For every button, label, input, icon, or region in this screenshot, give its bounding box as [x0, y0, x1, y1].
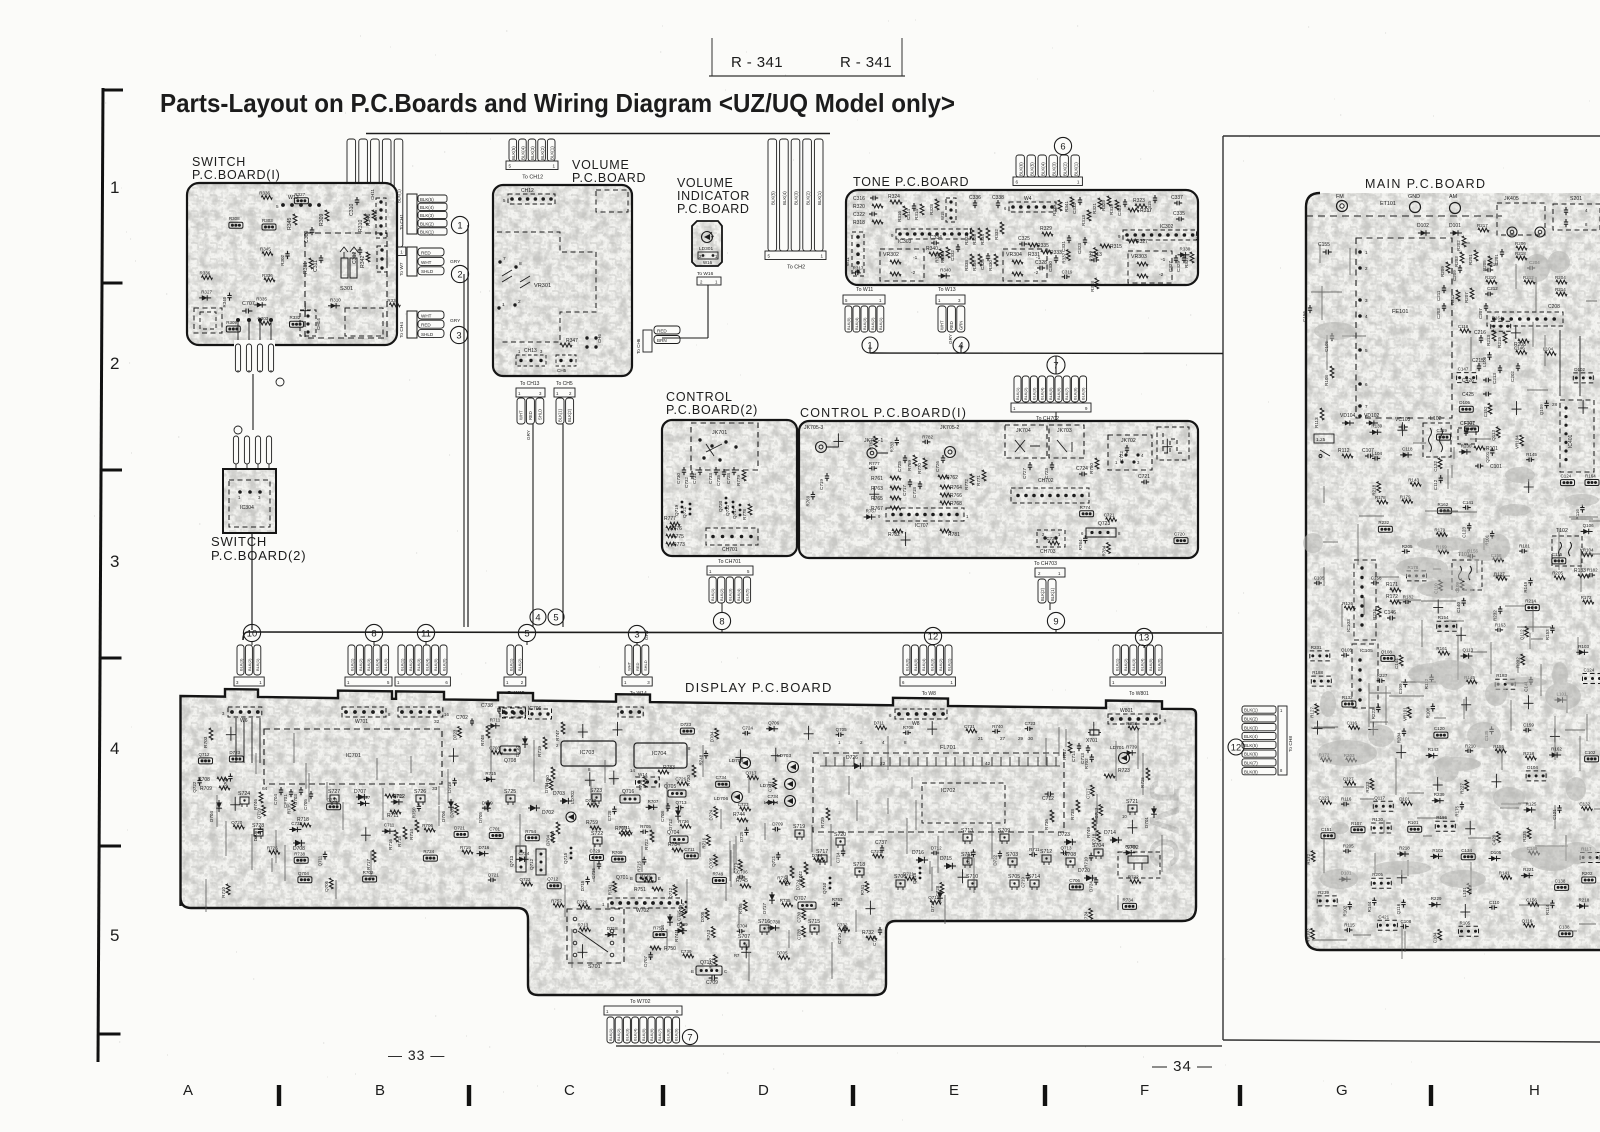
- svg-text:D714: D714: [1104, 830, 1116, 836]
- connector To CH12: [509, 139, 517, 161]
- svg-text:To CH2: To CH2: [787, 265, 805, 271]
- dashed rect left-bottom 1: [194, 308, 222, 333]
- svg-text:Q705: Q705: [664, 784, 676, 790]
- svg-text:C312: C312: [352, 251, 358, 264]
- svg-text:VR301: VR301: [534, 283, 551, 289]
- svg-text:BLK(1): BLK(1): [878, 317, 883, 330]
- labels RED BRN: [654, 326, 680, 334]
- svg-text:BLK(5): BLK(5): [846, 317, 851, 330]
- main dark trace blobs: [1303, 251, 1599, 889]
- wire single segment: [252, 374, 254, 430]
- resistor R314: [920, 204, 924, 215]
- svg-text:D721: D721: [903, 872, 914, 877]
- capacitor C321: [1124, 199, 1126, 202]
- switch S717: [818, 855, 827, 862]
- svg-text:S723: S723: [590, 788, 602, 794]
- svg-text:C736: C736: [591, 868, 596, 879]
- svg-text:R336: R336: [262, 273, 273, 278]
- resistor R738: [1076, 800, 1080, 812]
- svg-text:R337: R337: [1184, 257, 1189, 268]
- svg-text:R780: R780: [1089, 463, 1094, 474]
- pin box: [698, 252, 718, 259]
- main trace strokes: [1311, 243, 1600, 959]
- svg-text:VD102: VD102: [1364, 413, 1380, 419]
- svg-text:R234: R234: [1372, 609, 1377, 620]
- svg-text:R751: R751: [634, 887, 646, 893]
- svg-text:R709: R709: [200, 786, 212, 792]
- svg-text:To CH8: To CH8: [1288, 736, 1294, 752]
- node 1 tone: [862, 337, 878, 353]
- wire harness W12-CH2: [366, 133, 830, 135]
- svg-text:BLK(3): BLK(3): [930, 658, 935, 671]
- svg-text:Q722: Q722: [725, 504, 730, 516]
- svg-text:R750: R750: [411, 807, 416, 818]
- svg-text:Q705: Q705: [709, 857, 714, 869]
- switch S727: [330, 795, 339, 802]
- resistor R729: [826, 808, 830, 820]
- svg-text:VR104: VR104: [1515, 435, 1520, 449]
- svg-text:CONTROL P.C.BOARD(I): CONTROL P.C.BOARD(I): [800, 406, 967, 420]
- transistor Q719: [681, 501, 684, 504]
- svg-text:S726: S726: [414, 789, 426, 795]
- svg-text:R750: R750: [664, 946, 676, 952]
- svg-text:R218: R218: [1515, 251, 1526, 256]
- LED LD301: [702, 232, 713, 243]
- capacitor C330: [1055, 255, 1057, 258]
- resistor R205: [1488, 256, 1492, 267]
- node 8b: [365, 624, 382, 641]
- resistor R330: [994, 254, 998, 266]
- wire switch2 to bus node 10: [251, 533, 253, 630]
- svg-text:BLK(2): BLK(2): [517, 658, 522, 671]
- svg-text:To W16: To W16: [697, 271, 714, 277]
- svg-text:C314: C314: [906, 209, 911, 220]
- capacitor C310: [356, 197, 358, 200]
- resistor R215: [1503, 332, 1507, 343]
- svg-text:R133: R133: [1574, 568, 1586, 574]
- svg-text:C127: C127: [1465, 420, 1476, 425]
- svg-text:27: 27: [1000, 736, 1006, 741]
- svg-text:WHT: WHT: [421, 313, 432, 318]
- capacitor C331: [1068, 235, 1070, 238]
- svg-text:Q713: Q713: [1061, 845, 1073, 850]
- svg-text:D705: D705: [478, 812, 483, 823]
- svg-text:C120: C120: [1434, 726, 1445, 731]
- svg-text:IC701: IC701: [346, 753, 361, 759]
- svg-text:R125: R125: [1526, 801, 1537, 806]
- resistor R213: [1492, 330, 1496, 341]
- svg-text:R337: R337: [1061, 252, 1066, 263]
- connector W801b pin row: [1108, 714, 1160, 724]
- svg-text:VOLUME: VOLUME: [677, 176, 733, 190]
- svg-text:R130: R130: [1372, 817, 1383, 822]
- svg-text:C704: C704: [273, 794, 278, 805]
- capacitor C711: [879, 927, 881, 930]
- svg-text:R318: R318: [1090, 281, 1095, 292]
- svg-text:C730: C730: [770, 919, 781, 924]
- svg-text:C711: C711: [684, 847, 695, 852]
- svg-text:R764: R764: [950, 485, 962, 491]
- svg-text:VR104: VR104: [1580, 548, 1594, 553]
- svg-text:R715: R715: [637, 860, 642, 871]
- svg-text:R757: R757: [551, 898, 562, 903]
- svg-text:C721: C721: [1138, 474, 1150, 480]
- capacitor C201: [1501, 249, 1503, 252]
- capacitor C728: [733, 467, 735, 470]
- svg-text:R310: R310: [330, 297, 341, 302]
- svg-text:R749: R749: [713, 872, 724, 877]
- LED LD705: [785, 779, 796, 790]
- capacitor C315: [1154, 195, 1156, 198]
- svg-text:JK704: JK704: [1016, 428, 1031, 434]
- svg-text:D717: D717: [762, 903, 767, 914]
- svg-text:CH703: CH703: [1040, 549, 1056, 555]
- resistor R108: [1330, 366, 1334, 378]
- svg-text:R218: R218: [1399, 846, 1410, 851]
- svg-text:C147: C147: [1458, 367, 1469, 372]
- svg-text:BLK(3): BLK(3): [1131, 658, 1136, 671]
- IC IC703 outline: [561, 741, 616, 766]
- connector To CH702 top: [1014, 376, 1021, 402]
- resistor R334: [986, 228, 990, 240]
- svg-text:H: H: [1529, 1082, 1540, 1099]
- ribbon wires switch1 to switch2: [237, 322, 239, 372]
- svg-text:C737: C737: [875, 840, 887, 846]
- svg-text:C311: C311: [313, 260, 319, 272]
- svg-text:C138: C138: [1559, 925, 1570, 930]
- svg-text:R179: R179: [1400, 494, 1411, 499]
- transistor Q715: [570, 847, 573, 850]
- resistor R326: [978, 228, 982, 240]
- svg-text:R223: R223: [1371, 708, 1376, 719]
- svg-text:BLK(1): BLK(1): [1050, 587, 1055, 601]
- svg-text:22: 22: [880, 761, 886, 767]
- svg-text:D723: D723: [453, 729, 458, 740]
- resistor R309: [325, 210, 329, 221]
- svg-text:R345: R345: [260, 247, 271, 252]
- svg-text:R204: R204: [1555, 275, 1566, 280]
- svg-text:C315: C315: [1147, 201, 1152, 212]
- svg-text:R214: R214: [1525, 599, 1536, 604]
- control1 scatter: [1174, 538, 1188, 544]
- resistor R218: [1516, 256, 1527, 260]
- svg-text:VR103: VR103: [1306, 928, 1311, 942]
- svg-text:BLK(3): BLK(3): [1244, 725, 1258, 730]
- connector To W15: [507, 645, 514, 675]
- svg-text:BLK(8): BLK(8): [665, 1028, 670, 1041]
- svg-text:Q116: Q116: [1522, 918, 1533, 923]
- svg-text:R737: R737: [1062, 749, 1067, 760]
- node 1: [451, 216, 468, 233]
- svg-text:R126: R126: [1342, 601, 1353, 606]
- svg-text:C322: C322: [853, 212, 865, 218]
- svg-text:R213: R213: [1486, 335, 1491, 346]
- capacitor C332: [957, 244, 959, 247]
- svg-text:D724: D724: [1089, 881, 1094, 892]
- svg-text:C724: C724: [742, 726, 753, 731]
- svg-text:C334: C334: [930, 235, 942, 241]
- node 13: [1135, 628, 1152, 645]
- svg-text:C720: C720: [1174, 532, 1185, 537]
- wire stub 11: [425, 642, 427, 645]
- svg-text:2: 2: [518, 299, 521, 305]
- capacitor C209: [1459, 265, 1461, 268]
- connector W11 pin column: [852, 232, 864, 276]
- svg-text:D105: D105: [1491, 850, 1502, 855]
- svg-text:S301: S301: [340, 286, 353, 292]
- svg-text:D724: D724: [796, 879, 801, 890]
- svg-text:VR101: VR101: [1402, 707, 1407, 721]
- node 4: [530, 609, 546, 625]
- svg-text:BLK(4): BLK(4): [521, 146, 526, 160]
- resistor R719: [543, 737, 547, 749]
- svg-text:C719: C719: [1020, 876, 1025, 887]
- svg-text:C731: C731: [964, 724, 975, 729]
- diode D777: [771, 892, 773, 904]
- svg-text:BRN: BRN: [657, 338, 667, 343]
- svg-text:W11: W11: [845, 257, 850, 266]
- svg-text:R738: R738: [294, 851, 305, 856]
- svg-text:R769: R769: [805, 495, 810, 506]
- resistor R737: [1068, 742, 1072, 753]
- svg-text:R183: R183: [1496, 673, 1507, 678]
- svg-text:R143: R143: [1408, 477, 1419, 482]
- svg-text:D701: D701: [544, 782, 549, 793]
- capacitor CF701: [290, 789, 292, 792]
- node 4 tone: [953, 337, 969, 353]
- svg-text:R218: R218: [1372, 484, 1377, 495]
- svg-text:BLK(1): BLK(1): [1114, 658, 1119, 671]
- svg-text:SHLD: SHLD: [537, 409, 542, 420]
- capacitor C704: [280, 787, 282, 790]
- svg-text:D704: D704: [710, 731, 715, 742]
- svg-text:To CH1: To CH1: [399, 214, 405, 230]
- svg-text:D105: D105: [1459, 400, 1470, 405]
- svg-text:3: 3: [110, 552, 119, 571]
- svg-text:R149: R149: [1523, 581, 1528, 592]
- svg-text:S724: S724: [238, 791, 250, 797]
- svg-text:Q704: Q704: [298, 871, 310, 876]
- svg-text:R342: R342: [360, 255, 366, 268]
- svg-text:R182: R182: [1587, 568, 1598, 573]
- svg-text:C328: C328: [1035, 260, 1047, 266]
- svg-text:INDICATOR: INDICATOR: [677, 189, 750, 203]
- connector To W7: [407, 247, 417, 276]
- svg-text:R702: R702: [363, 870, 374, 875]
- svg-text:C705: C705: [303, 799, 308, 810]
- svg-text:E: E: [949, 1082, 959, 1099]
- svg-text:C706: C706: [737, 870, 748, 875]
- svg-text:R182: R182: [1403, 594, 1414, 599]
- svg-text:JK703: JK703: [1057, 428, 1072, 434]
- svg-text:D101: D101: [1399, 796, 1410, 801]
- svg-text:12: 12: [1231, 741, 1241, 752]
- svg-text:BLK(2): BLK(2): [1123, 658, 1128, 671]
- connector To CH8 and node 12: [1228, 739, 1244, 755]
- svg-text:B: B: [630, 876, 633, 881]
- resistor R203: [1460, 252, 1464, 263]
- svg-text:R144: R144: [1367, 901, 1372, 912]
- node 11: [417, 624, 434, 641]
- svg-text:Q712: Q712: [668, 887, 673, 899]
- junction ring b: [234, 426, 242, 434]
- svg-text:C210: C210: [1487, 262, 1498, 267]
- transistor Q712: [536, 849, 546, 875]
- svg-text:R719: R719: [537, 746, 542, 757]
- connector W8 pin row: [895, 709, 947, 719]
- svg-text:R734: R734: [1123, 897, 1134, 902]
- svg-text:To CH6: To CH6: [636, 338, 641, 354]
- svg-text:-2: -2: [1159, 272, 1164, 278]
- svg-text:C327: C327: [1168, 261, 1173, 272]
- svg-text:D712: D712: [668, 819, 673, 830]
- svg-text:C730: C730: [797, 911, 802, 922]
- connector W702 row: [608, 898, 682, 908]
- svg-text:R774: R774: [1080, 505, 1091, 510]
- IC IC103 dashed pin strip: [1354, 560, 1376, 640]
- node 9: [1047, 612, 1064, 629]
- svg-text:D709: D709: [677, 922, 688, 927]
- capacitor C203: [1443, 303, 1445, 306]
- svg-text:Q705: Q705: [324, 880, 329, 892]
- svg-text:S705: S705: [1008, 874, 1020, 880]
- svg-text:1: 1: [400, 250, 403, 255]
- connector IC302 pin row: [1123, 230, 1197, 240]
- svg-text:Q712: Q712: [529, 858, 534, 870]
- JK701 pins: [698, 438, 701, 441]
- svg-text:BLK(7): BLK(7): [1064, 387, 1069, 400]
- svg-text:C732: C732: [684, 477, 689, 488]
- svg-text:R323: R323: [1133, 198, 1145, 204]
- svg-text:C104: C104: [1433, 932, 1438, 943]
- svg-text:BLK(2): BLK(2): [540, 146, 545, 160]
- svg-text:R763: R763: [871, 486, 883, 492]
- svg-text:D716: D716: [479, 845, 490, 850]
- svg-text:D720: D720: [1078, 868, 1090, 874]
- switch board scatter: [262, 252, 273, 256]
- switch sym: [1319, 450, 1330, 458]
- IC IC702 dashed outline: [922, 783, 1005, 823]
- resistor R313: [1087, 210, 1091, 221]
- capacitor C323: [1084, 237, 1086, 240]
- svg-text:R761: R761: [868, 439, 873, 450]
- svg-text:C102: C102: [1585, 750, 1596, 755]
- connector CH6 pads: [585, 336, 588, 339]
- svg-text:R345: R345: [287, 217, 293, 230]
- svg-text:R163: R163: [1495, 622, 1506, 627]
- svg-text:R205: R205: [1552, 571, 1563, 576]
- svg-text:R102: R102: [1342, 905, 1347, 916]
- svg-text:BLK(5): BLK(5): [745, 588, 750, 601]
- svg-text:C319: C319: [1062, 269, 1073, 274]
- svg-text:Q113: Q113: [1491, 430, 1496, 441]
- switch S723: [592, 794, 601, 801]
- dashed rect left-bottom 2: [200, 312, 216, 329]
- connector CH14: [300, 310, 316, 336]
- left margin ruler: [98, 88, 103, 1062]
- svg-text:29: 29: [1018, 736, 1024, 741]
- svg-text:C734: C734: [716, 775, 727, 780]
- svg-text:C101: C101: [1490, 464, 1502, 470]
- resistor R214: [1556, 292, 1567, 296]
- svg-text:BLK(1): BLK(1): [549, 146, 554, 160]
- svg-text:C216: C216: [1474, 330, 1486, 336]
- capacitor C731: [699, 467, 701, 470]
- svg-text:11: 11: [421, 627, 431, 638]
- svg-text:R218: R218: [1579, 898, 1590, 903]
- FL701 pin ticks: [826, 757, 1056, 766]
- svg-text:-2: -2: [911, 270, 916, 276]
- resistor R337: [1190, 252, 1194, 263]
- svg-text:VR304: VR304: [1006, 252, 1022, 258]
- svg-text:BLK(1): BLK(1): [710, 588, 715, 601]
- jack JK702 dashed: [1108, 435, 1152, 470]
- resistor R746: [259, 792, 263, 803]
- svg-text:1: 1: [110, 178, 119, 197]
- svg-text:R239: R239: [1434, 792, 1445, 797]
- resistor R703: [209, 728, 213, 740]
- svg-text:BLK(9): BLK(9): [674, 1028, 679, 1041]
- svg-text:R744: R744: [733, 812, 745, 818]
- svg-text:D724: D724: [709, 809, 714, 820]
- svg-text:8: 8: [719, 615, 724, 626]
- svg-text:1.25: 1.25: [1316, 437, 1326, 443]
- svg-text:BLK(8): BLK(8): [1072, 387, 1077, 400]
- svg-text:R737: R737: [640, 873, 651, 878]
- svg-text:LD702: LD702: [570, 790, 575, 804]
- svg-text:1: 1: [821, 254, 824, 259]
- svg-text:SHLD: SHLD: [421, 332, 434, 337]
- svg-text:S719: S719: [793, 824, 805, 830]
- svg-text:5: 5: [1365, 348, 1368, 353]
- svg-text:R724: R724: [423, 849, 434, 854]
- svg-text:C303: C303: [258, 316, 269, 321]
- svg-text:G: G: [1336, 1082, 1348, 1099]
- node 7: [1047, 356, 1065, 374]
- svg-text:RED: RED: [635, 662, 640, 671]
- svg-text:C134: C134: [1461, 848, 1472, 853]
- dashed rect right-bottom: [345, 308, 383, 336]
- svg-text:R309: R309: [226, 320, 237, 325]
- svg-text:5: 5: [768, 254, 771, 259]
- connector IC303 pin row: [896, 229, 971, 239]
- resistor R741: [680, 922, 684, 934]
- connector W9 pin row: [398, 707, 443, 717]
- svg-text:IC103: IC103: [1346, 619, 1352, 632]
- resistor R749: [1092, 818, 1096, 830]
- transistor Q713: [516, 846, 526, 872]
- connector CH701 dashed pin row: [706, 528, 758, 545]
- svg-text:Q721: Q721: [682, 506, 687, 518]
- svg-text:C709: C709: [706, 980, 718, 986]
- svg-text:BLK(4): BLK(4): [782, 191, 787, 205]
- svg-text:R171: R171: [1386, 582, 1398, 588]
- svg-text:5: 5: [276, 204, 279, 209]
- svg-text:BLK(4): BLK(4): [1040, 162, 1045, 176]
- svg-text:BLK(3): BLK(3): [238, 658, 243, 671]
- svg-text:C732: C732: [837, 923, 848, 928]
- svg-text:BLK(5): BLK(5): [383, 658, 388, 671]
- connector W15b pin row: [500, 707, 525, 717]
- svg-text:R172: R172: [1386, 594, 1398, 600]
- svg-text:R702: R702: [1084, 758, 1089, 769]
- resistor R325: [1107, 196, 1111, 206]
- svg-text:LD301: LD301: [699, 246, 713, 252]
- svg-text:C711: C711: [384, 823, 395, 828]
- svg-text:Q717: Q717: [732, 507, 737, 519]
- svg-text:C714: C714: [836, 852, 841, 863]
- connector To CH13 below board: [516, 388, 545, 397]
